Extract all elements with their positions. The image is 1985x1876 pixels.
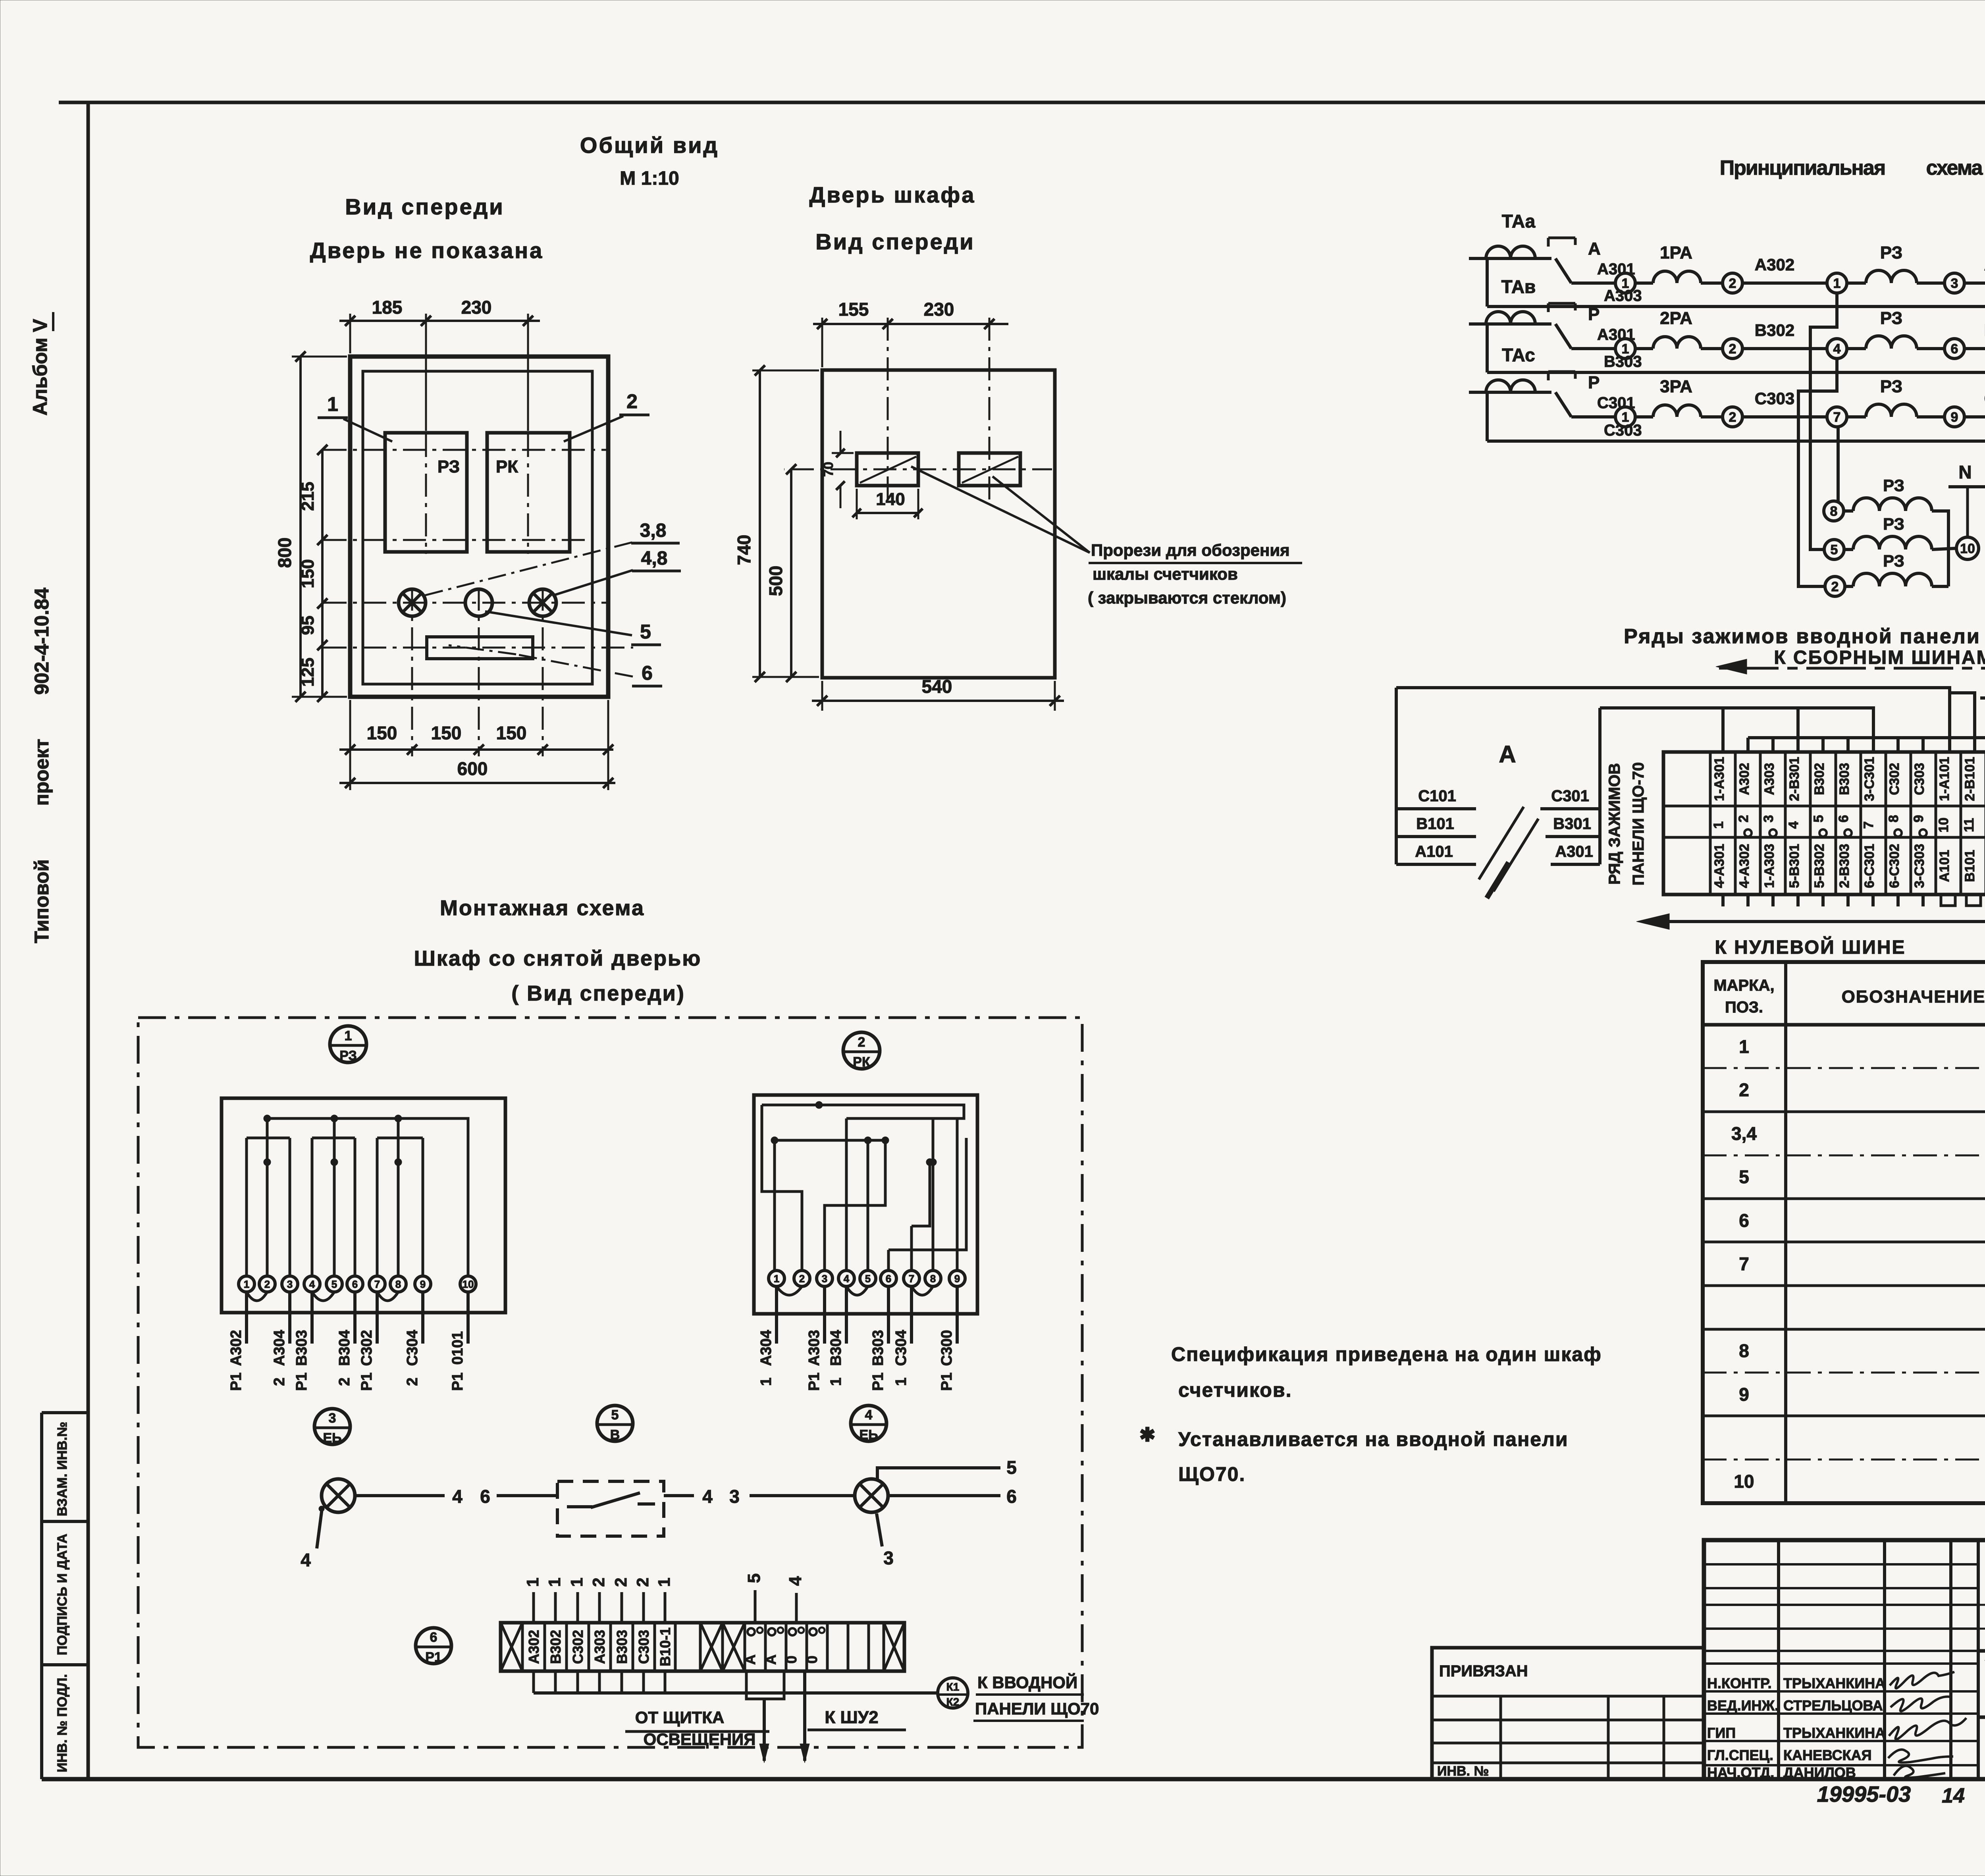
svg-text:РЗ: РЗ (1883, 476, 1904, 495)
RZ voltage coil terminal 5 (1824, 540, 1844, 559)
svg-text:А301: А301 (1555, 843, 1593, 860)
feeder wire C101 (1396, 807, 1476, 810)
svg-text:1: 1 (545, 1577, 564, 1587)
dim 740 door (752, 370, 819, 372)
dim 540 door (821, 681, 823, 711)
svg-text:6-С302: 6-С302 (1887, 844, 1902, 888)
svg-text:А303: А303 (1604, 287, 1642, 305)
svg-text:ЕЬ: ЕЬ (859, 1427, 878, 1442)
lamp EL2 wire right 6 (889, 1494, 1000, 1497)
svg-text:ПАНЕЛИ ЩО-70: ПАНЕЛИ ЩО-70 (1630, 762, 1647, 886)
terminal circle 1 row 2 (1615, 339, 1635, 359)
svg-text:В302: В302 (1755, 321, 1794, 339)
wire label А304 (1964, 281, 1985, 285)
svg-text:3: 3 (1761, 815, 1776, 823)
bus level 3 drops (1748, 738, 1985, 752)
svg-text:2: 2 (404, 1377, 421, 1386)
svg-text:РК: РК (853, 1055, 870, 1070)
signature rows (1707, 1675, 1885, 1781)
svg-text:А304: А304 (758, 1330, 775, 1366)
svg-text:Р1: Р1 (870, 1373, 887, 1391)
svg-text:1: 1 (758, 1377, 775, 1386)
title block frame (1704, 1540, 1985, 1779)
svg-text:1: 1 (1711, 821, 1726, 829)
RZ voltage coil top (1844, 509, 1853, 513)
svg-text:С300: С300 (939, 1330, 955, 1366)
dim 70 slot (832, 452, 854, 454)
svg-text:1-А101: 1-А101 (1937, 757, 1952, 801)
svg-text:В101: В101 (1962, 850, 1977, 882)
svg-text:1: 1 (774, 1273, 779, 1284)
svg-text:5: 5 (1831, 542, 1838, 557)
svg-text:А: А (742, 1654, 758, 1665)
svg-text:ВЗАМ. ИНВ.№: ВЗАМ. ИНВ.№ (55, 1422, 70, 1516)
svg-text:Р1: Р1 (228, 1373, 245, 1391)
bus level 2 drop t1 (1721, 708, 1725, 752)
svg-text:1РА: 1РА (1660, 243, 1692, 262)
svg-text:ОТ ЩИТКА: ОТ ЩИТКА (635, 1708, 725, 1727)
meter RZ outline (222, 1098, 505, 1313)
svg-text:6: 6 (642, 662, 653, 684)
svg-text:М 1:10: М 1:10 (620, 168, 679, 189)
svg-text:( закрываются стеклом): ( закрываются стеклом) (1088, 588, 1286, 607)
voltage tap wire from row B to coil 2 group (1798, 359, 1837, 586)
voltage tap wire row C to coil 8 (1837, 427, 1840, 501)
montage dash-dot border (138, 1018, 1082, 1747)
svg-text:6: 6 (1951, 341, 1958, 357)
svg-text:ВЕД.ИНЖ.: ВЕД.ИНЖ. (1707, 1697, 1779, 1714)
svg-text:2: 2 (271, 1377, 288, 1386)
spec table row lines (1703, 1068, 1985, 1460)
svg-text:1: 1 (893, 1377, 910, 1386)
wire down to lighting board (763, 1699, 766, 1761)
svg-text:2РА: 2РА (1660, 308, 1692, 328)
svg-text:2-В101: 2-В101 (1962, 757, 1977, 801)
svg-text:В303: В303 (870, 1330, 887, 1366)
svg-text:Альбом V: Альбом V (29, 319, 51, 416)
svg-text:А302: А302 (228, 1330, 245, 1366)
svg-text:С301: С301 (1551, 787, 1589, 805)
svg-text:В304: В304 (828, 1330, 844, 1366)
svg-text:740: 740 (734, 535, 754, 565)
feeder wire C301 (1540, 807, 1600, 810)
svg-text:5: 5 (744, 1573, 764, 1583)
svg-text:ТАв: ТАв (1501, 276, 1536, 297)
terminal circle 4 row 2 (1827, 339, 1847, 359)
neutral N symbol (1948, 462, 1985, 537)
bottom stubs 1-9 (1723, 895, 1923, 906)
svg-text:Монтажная схема: Монтажная схема (440, 896, 645, 920)
position marker 1/RZ (330, 1026, 366, 1063)
svg-text:19995-03: 19995-03 (1817, 1782, 1911, 1807)
RK internal wiring (762, 1101, 966, 1270)
svg-text:2: 2 (1729, 276, 1736, 291)
svg-text:8: 8 (1886, 815, 1901, 823)
svg-text:2: 2 (799, 1273, 805, 1284)
svg-text:3: 3 (883, 1548, 894, 1568)
svg-text:N: N (1958, 462, 1972, 482)
bottom strip top stubs with numbers (523, 1577, 673, 1623)
centerline vertical RZ (425, 315, 427, 554)
svg-text:МАРКА,: МАРКА, (1713, 977, 1774, 994)
svg-text:155: 155 (838, 299, 869, 320)
svg-text:ИНВ. № ПОДЛ.: ИНВ. № ПОДЛ. (55, 1674, 70, 1772)
svg-text:РЗ: РЗ (437, 457, 460, 476)
bottom strip X marks (501, 1623, 904, 1671)
terminal circle 7 row 3 (1827, 407, 1847, 427)
switch wire right 4 (664, 1494, 694, 1497)
wire label В304 (1964, 347, 1985, 350)
lamp EL2 wire left 3 (750, 1494, 854, 1497)
svg-text:7: 7 (909, 1273, 914, 1284)
svg-text:проект: проект (31, 739, 53, 806)
svg-text:4: 4 (1833, 341, 1841, 357)
svg-text:А101: А101 (1415, 843, 1453, 860)
svg-text:А302: А302 (1755, 255, 1794, 274)
svg-text:5: 5 (331, 1278, 337, 1290)
spec table rows content (1731, 1036, 1985, 1492)
svg-text:2: 2 (264, 1278, 270, 1290)
signatures scribbles (1888, 1672, 1966, 1778)
svg-text:8: 8 (1830, 504, 1838, 519)
svg-text:ИНВ. №: ИНВ. № (1437, 1764, 1489, 1779)
terminal circle 9 row 3 (1945, 407, 1964, 427)
meter RK terminals 1-9 (769, 1271, 965, 1286)
lamp EL2 wire bottom 3 (877, 1514, 882, 1546)
svg-text:2: 2 (633, 1577, 652, 1587)
svg-text:4,8: 4,8 (641, 548, 668, 569)
bottom strip dividers (522, 1623, 884, 1671)
svg-text:6: 6 (430, 1630, 437, 1645)
svg-text:РЗ: РЗ (1880, 377, 1902, 396)
svg-text:3: 3 (822, 1273, 827, 1284)
wire label С304 (1964, 415, 1985, 418)
svg-text:500: 500 (765, 566, 786, 596)
svg-text:К СБОРНЫМ ШИНАМ: К СБОРНЫМ ШИНАМ (1774, 647, 1985, 668)
terminal circle 6 row 2 (1945, 339, 1964, 359)
svg-text:3-С301: 3-С301 (1862, 757, 1877, 801)
title block left rows (1704, 1564, 1978, 1765)
svg-text:902-4-10.84: 902-4-10.84 (31, 588, 53, 695)
svg-text:Р1: Р1 (449, 1373, 466, 1391)
centerline horizontal upper (324, 449, 607, 451)
svg-text:К НУЛЕВОЙ ШИНЕ: К НУЛЕВОЙ ШИНЕ (1715, 936, 1906, 958)
bus level 3 (1748, 736, 1985, 739)
lamp EL1 wire right 4 (356, 1494, 445, 1497)
current winding 3РА (1635, 415, 1653, 418)
svg-text:А302: А302 (1737, 763, 1752, 795)
svg-text:В303: В303 (1604, 353, 1642, 370)
svg-text:10: 10 (463, 1278, 474, 1290)
RZ internal bus top (267, 1118, 468, 1276)
svg-text:ПОДПИСЬ И ДАТА: ПОДПИСЬ И ДАТА (55, 1534, 70, 1655)
disconnect switch phase 2 (1548, 303, 1635, 349)
svg-text:4: 4 (452, 1486, 463, 1507)
position marker 4/EL (851, 1406, 887, 1442)
dim 600 bottom (339, 782, 615, 784)
RZ jumper 4-6 (312, 1137, 355, 1139)
svg-text:0: 0 (804, 1656, 820, 1664)
svg-text:2: 2 (1729, 341, 1736, 357)
svg-text:А101: А101 (1937, 850, 1952, 882)
svg-text:2-В301: 2-В301 (1787, 757, 1802, 801)
dim 150x3 bottom (349, 700, 351, 790)
svg-text:2: 2 (626, 390, 638, 413)
svg-text:3,8: 3,8 (640, 520, 667, 541)
svg-text:ТАа: ТАа (1502, 211, 1536, 231)
svg-text:7: 7 (374, 1278, 380, 1290)
terminal circle 1 row 3 (1615, 407, 1635, 427)
svg-text:1: 1 (244, 1278, 249, 1290)
RZ voltage coil terminal 2 (1825, 576, 1845, 596)
svg-text:1: 1 (1739, 1036, 1749, 1057)
svg-text:Р1: Р1 (358, 1373, 375, 1391)
svg-text:ПОЗ.: ПОЗ. (1725, 999, 1763, 1016)
svg-text:0101: 0101 (449, 1331, 466, 1365)
svg-text:Спецификация приведена на о: Спецификация приведена на один шкаф (1171, 1343, 1602, 1365)
svg-text:5-В302: 5-В302 (1812, 844, 1827, 888)
switch contact (567, 1505, 592, 1508)
svg-text:С302: С302 (358, 1330, 375, 1366)
position marker 6/P1 (416, 1628, 451, 1665)
svg-text:А303: А303 (592, 1630, 608, 1664)
spec table header row (1703, 1023, 1985, 1027)
svg-text:ГИП: ГИП (1707, 1725, 1736, 1741)
terminal block SchO-70 outline (1663, 752, 1985, 895)
svg-text:Принципиальная: Принципиальная (1720, 156, 1885, 179)
svg-text:7: 7 (1739, 1253, 1749, 1274)
svg-text:7: 7 (1833, 410, 1841, 425)
terminal circle 2 row 2 (1723, 339, 1742, 359)
left margin stamp boxes column (42, 1413, 88, 1779)
svg-text:2: 2 (611, 1577, 630, 1587)
svg-text:8: 8 (1739, 1340, 1749, 1361)
door slot right (959, 453, 1020, 486)
svg-text:ГЛ.СПЕЦ.: ГЛ.СПЕЦ. (1707, 1747, 1773, 1763)
svg-text:✱: ✱ (1139, 1425, 1155, 1446)
terminal circle 3 row 1 (1945, 273, 1964, 293)
title block center rows (1978, 1604, 1985, 1606)
svg-text:К1: К1 (946, 1681, 960, 1693)
svg-text:5: 5 (1739, 1166, 1749, 1187)
current transformer ТАа (1469, 211, 1551, 307)
svg-text:540: 540 (922, 676, 952, 697)
svg-text:9: 9 (1739, 1384, 1749, 1405)
svg-text:4: 4 (1786, 821, 1801, 829)
feeder wire B301 (1546, 835, 1600, 838)
svg-text:С304: С304 (893, 1330, 910, 1366)
svg-text:2: 2 (1831, 579, 1839, 594)
meter window RK (pos.2) (487, 433, 570, 552)
svg-text:4: 4 (786, 1576, 805, 1586)
svg-text:150: 150 (431, 723, 462, 743)
svg-text:А303: А303 (1762, 763, 1777, 795)
svg-text:6-С301: 6-С301 (1862, 844, 1877, 888)
svg-text:Р1: Р1 (425, 1650, 442, 1665)
svg-text:С304: С304 (404, 1330, 421, 1366)
disconnect switch phase 3 (1548, 372, 1635, 417)
svg-text:6: 6 (1739, 1210, 1749, 1231)
current winding 2РА (1635, 347, 1653, 350)
RK pair loops (777, 1286, 933, 1295)
svg-text:РК: РК (496, 457, 518, 476)
svg-text:10: 10 (1960, 541, 1975, 556)
door slot left (857, 453, 918, 486)
svg-text:4-А301: 4-А301 (1712, 844, 1727, 888)
svg-text:9: 9 (1951, 410, 1958, 425)
svg-text:1: 1 (327, 393, 338, 415)
svg-text:2: 2 (858, 1035, 865, 1050)
svg-text:1: 1 (655, 1577, 673, 1587)
svg-text:Шкаф со снятой дверью: Шкаф со снятой дверью (414, 947, 702, 970)
svg-text:А: А (763, 1654, 779, 1665)
switch wire left 6 (497, 1494, 557, 1497)
lamp EL2 (855, 1479, 888, 1512)
cabinet outer body (350, 357, 608, 697)
feeder wire A101 (1396, 863, 1476, 866)
svg-text:2: 2 (1736, 815, 1751, 823)
centerline horizontal lower (324, 539, 592, 541)
svg-text:150: 150 (367, 723, 397, 743)
svg-text:В303: В303 (1837, 763, 1852, 795)
centerline vertical RK (527, 315, 529, 554)
svg-text:С303: С303 (636, 1630, 652, 1664)
svg-text:2: 2 (336, 1377, 353, 1386)
svg-text:9: 9 (420, 1278, 426, 1290)
to busbars arrow line (1716, 659, 1985, 674)
bottom hooks t10 t11 t12 (1941, 895, 1985, 906)
svg-text:9: 9 (1911, 815, 1926, 823)
svg-text:РЗ: РЗ (339, 1048, 357, 1063)
svg-text:ПРИВЯЗАН: ПРИВЯЗАН (1439, 1662, 1528, 1680)
svg-text:ОБОЗНАЧЕНИЕ: ОБОЗНАЧЕНИЕ (1842, 987, 1985, 1006)
svg-text:РЗ: РЗ (1883, 551, 1904, 570)
bus level 1 drop t12 (1980, 698, 1985, 752)
position marker 2/RK (843, 1032, 880, 1070)
svg-text:150: 150 (496, 723, 527, 743)
svg-text:С303: С303 (1912, 763, 1927, 795)
terminal slot pos.6 (427, 637, 533, 659)
svg-text:230: 230 (461, 297, 492, 318)
svg-text:В302: В302 (1812, 763, 1827, 795)
svg-text:1-А301: 1-А301 (1712, 757, 1727, 801)
svg-text:Ряды зажимов вводной панели: Ряды зажимов вводной панели ЩО-70 (1624, 625, 1985, 648)
svg-text:8: 8 (395, 1278, 401, 1290)
terminal circle 2 row 1 (1723, 273, 1742, 293)
neutral node N terminal 10 (1956, 537, 1979, 559)
svg-text:С101: С101 (1418, 787, 1456, 805)
svg-text:1: 1 (345, 1028, 352, 1043)
svg-text:ТРЫХАНКИНА: ТРЫХАНКИНА (1783, 1725, 1885, 1741)
wire label С303 (1742, 415, 1827, 418)
svg-text:2-В303: 2-В303 (1837, 844, 1852, 888)
svg-text:5: 5 (1006, 1457, 1017, 1478)
svg-text:1: 1 (828, 1377, 844, 1386)
centerline through slot (324, 647, 633, 649)
marker K1/K2 to input panel (938, 1678, 968, 1708)
svg-text:В301: В301 (1553, 815, 1591, 833)
svg-text:Р1: Р1 (293, 1373, 310, 1391)
lamp 3 symbol (399, 589, 426, 616)
svg-text:РЗ: РЗ (1880, 243, 1902, 262)
svg-text:3-С303: 3-С303 (1912, 844, 1927, 888)
bottom strip wire labels (526, 1627, 673, 1666)
svg-text:ЕЬ: ЕЬ (323, 1431, 341, 1446)
svg-text:6: 6 (1836, 815, 1851, 823)
bus level 1 (1396, 688, 1950, 752)
svg-text:РЯД ЗАЖИМОВ: РЯД ЗАЖИМОВ (1606, 763, 1623, 885)
svg-text:4: 4 (301, 1550, 311, 1570)
svg-text:70: 70 (821, 462, 836, 477)
svg-text:5: 5 (865, 1273, 871, 1284)
svg-text:Дверь шкафа: Дверь шкафа (809, 182, 976, 207)
svg-text:Устанавливается на вводной: Устанавливается на вводной панели (1178, 1428, 1569, 1450)
RZ jumper 1-3 (247, 1137, 290, 1139)
position marker 5/B (597, 1406, 633, 1442)
svg-text:4-А302: 4-А302 (1737, 844, 1752, 888)
RZ meter current coil row 2 (1847, 347, 1866, 350)
lamp EL2 wire top 5 (877, 1468, 1000, 1480)
svg-text:К ШУ2: К ШУ2 (825, 1708, 878, 1727)
svg-text:4: 4 (865, 1407, 873, 1423)
svg-text:600: 600 (457, 758, 488, 779)
cabinet inner frame (363, 371, 592, 684)
svg-text:Р1: Р1 (939, 1373, 955, 1391)
svg-text:В303: В303 (293, 1330, 310, 1366)
svg-text:ТРЫХАНКИНА: ТРЫХАНКИНА (1783, 1675, 1885, 1691)
terminal circle 2 row 3 (1723, 407, 1742, 427)
null bus wire (1643, 895, 1985, 922)
switch pos5 dashed box (557, 1481, 664, 1536)
wire label В302 (1742, 347, 1827, 350)
svg-text:150: 150 (298, 559, 318, 588)
svg-text:Р: Р (1588, 373, 1600, 392)
svg-text:5: 5 (611, 1407, 619, 1423)
disconnect switch phase 1 (1548, 238, 1635, 283)
RK outgoing wires (758, 1286, 957, 1391)
RZ voltage coil middle (1844, 548, 1853, 551)
title block left verticals (1779, 1540, 1978, 1779)
svg-text:1: 1 (523, 1577, 542, 1587)
svg-text:5: 5 (1811, 815, 1826, 823)
svg-text:В10-1: В10-1 (657, 1627, 673, 1666)
svg-text:А: А (1588, 239, 1601, 258)
meter window RZ (pos.1) (385, 433, 467, 552)
meter RK outline (754, 1095, 977, 1314)
svg-text:2: 2 (589, 1577, 608, 1587)
position marker 3/EL (314, 1409, 350, 1446)
svg-text:6: 6 (480, 1486, 490, 1507)
svg-text:1: 1 (1833, 276, 1841, 291)
terminal circle 1 row 1 (1615, 273, 1635, 293)
svg-text:Р: Р (1588, 305, 1600, 324)
dim 140 slot (856, 489, 858, 519)
svg-text:11: 11 (1962, 818, 1977, 832)
svg-text:счетчиков.: счетчиков. (1178, 1379, 1292, 1401)
RZ terminal risers (247, 1118, 423, 1276)
svg-text:3: 3 (729, 1486, 740, 1507)
svg-text:9: 9 (954, 1273, 960, 1284)
svg-text:230: 230 (924, 299, 954, 320)
svg-text:А304: А304 (271, 1330, 288, 1366)
dim 800 left (292, 356, 347, 358)
svg-text:С302: С302 (570, 1630, 586, 1664)
RZ jumper 7-9 (377, 1137, 423, 1139)
meter RZ terminals 1-10 (239, 1276, 476, 1292)
terminal block cell dividers (1710, 752, 1985, 895)
RZ pair loops (247, 1292, 398, 1301)
current transformer ТАв (1469, 276, 1551, 372)
